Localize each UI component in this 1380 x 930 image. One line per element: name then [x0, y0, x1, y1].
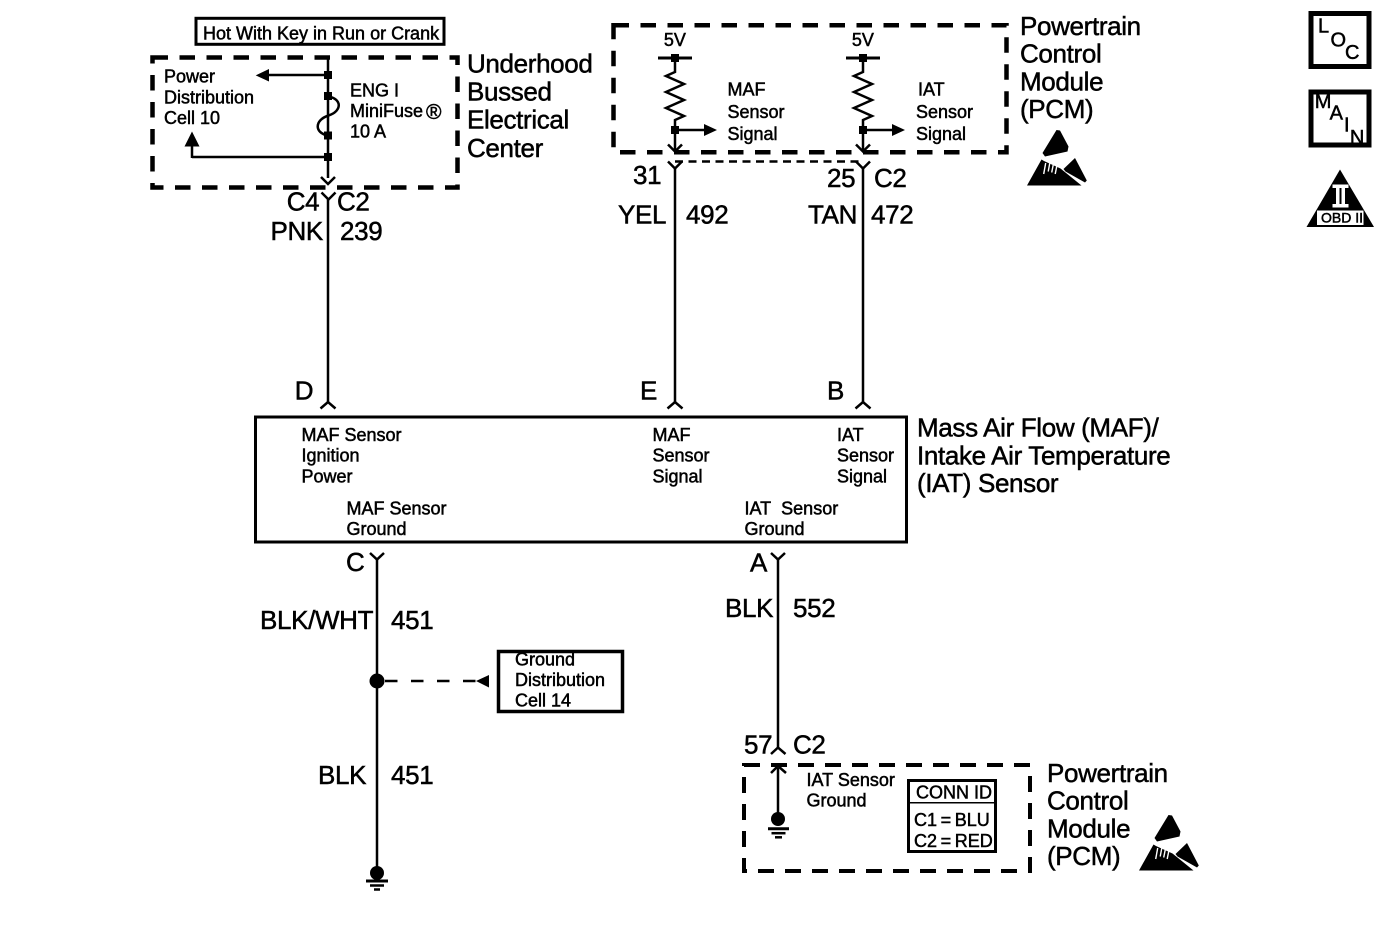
svg-text:(PCM): (PCM) — [1020, 94, 1093, 124]
svg-text:C2: C2 — [793, 730, 826, 760]
svg-text:Electrical: Electrical — [467, 105, 569, 135]
svg-text:10 A: 10 A — [350, 122, 386, 142]
svg-text:Signal: Signal — [728, 124, 778, 144]
svg-text:Ground: Ground — [807, 791, 867, 811]
svg-text:Bussed: Bussed — [467, 77, 552, 107]
svg-text:BLK/WHT: BLK/WHT — [260, 605, 374, 635]
svg-text:Signal: Signal — [653, 467, 703, 487]
svg-text:(PCM): (PCM) — [1047, 841, 1120, 871]
svg-text:MAF Sensor: MAF Sensor — [302, 425, 402, 445]
svg-text:CONN ID: CONN ID — [916, 783, 992, 803]
svg-text:472: 472 — [871, 200, 913, 230]
svg-text:YEL: YEL — [618, 200, 666, 230]
svg-text:Distribution: Distribution — [164, 87, 254, 107]
svg-text:A: A — [750, 548, 768, 578]
svg-text:5V: 5V — [852, 30, 874, 50]
svg-text:Sensor: Sensor — [728, 102, 785, 122]
svg-text:Power: Power — [164, 67, 215, 87]
svg-text:C2: C2 — [874, 163, 907, 193]
svg-text:Cell 14: Cell 14 — [515, 691, 571, 711]
svg-text:Control: Control — [1020, 39, 1101, 69]
svg-text:C2: C2 — [337, 187, 370, 217]
svg-text:Mass Air Flow (MAF)/: Mass Air Flow (MAF)/ — [917, 413, 1160, 443]
svg-text:C2 = RED: C2 = RED — [914, 831, 993, 851]
svg-text:451: 451 — [391, 760, 433, 790]
svg-text:N: N — [1350, 127, 1364, 149]
svg-text:Sensor: Sensor — [916, 102, 973, 122]
svg-text:Underhood: Underhood — [467, 48, 593, 78]
svg-text:Signal: Signal — [916, 124, 966, 144]
svg-text:552: 552 — [793, 593, 835, 623]
svg-text:BLK: BLK — [318, 760, 367, 790]
svg-text:239: 239 — [340, 216, 382, 246]
svg-text:D: D — [295, 376, 313, 406]
svg-text:BLK: BLK — [725, 593, 774, 623]
svg-text:ENG I: ENG I — [350, 81, 399, 101]
svg-text:IAT: IAT — [837, 425, 864, 445]
svg-text:L: L — [1318, 15, 1329, 37]
svg-text:Powertrain: Powertrain — [1047, 758, 1168, 788]
svg-text:451: 451 — [391, 605, 433, 635]
svg-text:C: C — [346, 547, 364, 577]
svg-text:MAF: MAF — [728, 79, 766, 99]
svg-text:MAF: MAF — [653, 425, 691, 445]
svg-text:Sensor: Sensor — [653, 446, 710, 466]
svg-text:Distribution: Distribution — [515, 670, 605, 690]
svg-text:Powertrain: Powertrain — [1020, 11, 1141, 41]
svg-text:Power: Power — [302, 467, 353, 487]
svg-text:O: O — [1331, 29, 1347, 51]
svg-text:31: 31 — [633, 160, 661, 190]
svg-text:Cell 10: Cell 10 — [164, 108, 220, 128]
svg-text:Center: Center — [467, 133, 544, 163]
svg-text:C1 = BLU: C1 = BLU — [914, 810, 990, 830]
svg-text:492: 492 — [686, 200, 728, 230]
svg-text:57: 57 — [744, 730, 772, 760]
svg-text:A: A — [1330, 103, 1344, 125]
svg-text:E: E — [640, 376, 657, 406]
svg-text:B: B — [827, 376, 844, 406]
svg-text:I: I — [1344, 114, 1350, 136]
svg-text:Intake Air Temperature: Intake Air Temperature — [917, 440, 1170, 470]
svg-text:25: 25 — [827, 163, 855, 193]
svg-text:Ground: Ground — [515, 650, 575, 670]
svg-text:IAT Sensor: IAT Sensor — [807, 770, 895, 790]
svg-text:(IAT) Sensor: (IAT) Sensor — [917, 468, 1059, 498]
svg-text:Control: Control — [1047, 786, 1128, 816]
svg-text:MiniFuse: MiniFuse — [350, 101, 423, 121]
svg-text:TAN: TAN — [808, 200, 857, 230]
svg-text:MAF Sensor: MAF Sensor — [347, 499, 447, 519]
svg-text:C4: C4 — [287, 187, 320, 217]
svg-text:Module: Module — [1047, 813, 1130, 843]
svg-text:Ignition: Ignition — [302, 446, 360, 466]
svg-text:Module: Module — [1020, 66, 1103, 96]
svg-text:Ground: Ground — [347, 519, 407, 539]
svg-text:C: C — [1345, 42, 1359, 64]
svg-text:IAT Sensor: IAT Sensor — [745, 499, 839, 519]
svg-text:Signal: Signal — [837, 467, 887, 487]
svg-text:IAT: IAT — [918, 79, 945, 99]
svg-text:Hot With Key in Run or Crank: Hot With Key in Run or Crank — [203, 24, 440, 44]
svg-text:OBD II: OBD II — [1321, 210, 1363, 226]
svg-text:®: ® — [426, 101, 442, 124]
svg-text:Ground: Ground — [745, 519, 805, 539]
svg-text:PNK: PNK — [271, 216, 324, 246]
svg-text:Sensor: Sensor — [837, 446, 894, 466]
svg-text:5V: 5V — [664, 30, 686, 50]
